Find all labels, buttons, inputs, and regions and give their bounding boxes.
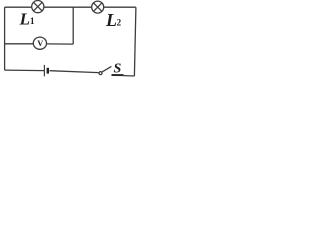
svg-text:L: L bbox=[19, 9, 30, 28]
wire bottom-left segment bbox=[5, 69, 45, 72]
svg-text:V: V bbox=[37, 39, 43, 48]
svg-text:L: L bbox=[105, 10, 117, 30]
wire bottom-right segment to corner bbox=[124, 75, 135, 77]
wire top-middle segment bbox=[44, 6, 92, 8]
wire voltmeter branch horizontal left bbox=[5, 43, 34, 45]
wire voltmeter branch vertical bbox=[72, 7, 74, 44]
switch S lever bbox=[102, 66, 112, 72]
label L2 bbox=[105, 10, 122, 30]
wire right vertical bbox=[134, 7, 136, 76]
lamp L1 bbox=[32, 1, 44, 13]
label L1 bbox=[19, 9, 35, 28]
wire top-right segment bbox=[104, 6, 136, 8]
svg-text:S: S bbox=[114, 62, 122, 77]
wire voltmeter branch horizontal right bbox=[46, 43, 73, 45]
voltmeter V bbox=[33, 37, 46, 49]
svg-text:2: 2 bbox=[117, 18, 122, 28]
wire left vertical bbox=[4, 7, 6, 70]
wire top-left segment bbox=[5, 6, 32, 8]
wire bottom-right segment under S bbox=[112, 74, 124, 76]
switch S pivot bbox=[99, 72, 102, 75]
lamp L2 bbox=[92, 1, 104, 13]
svg-text:1: 1 bbox=[30, 16, 35, 26]
battery bbox=[44, 65, 47, 76]
wire bottom-middle segment bbox=[50, 71, 99, 73]
